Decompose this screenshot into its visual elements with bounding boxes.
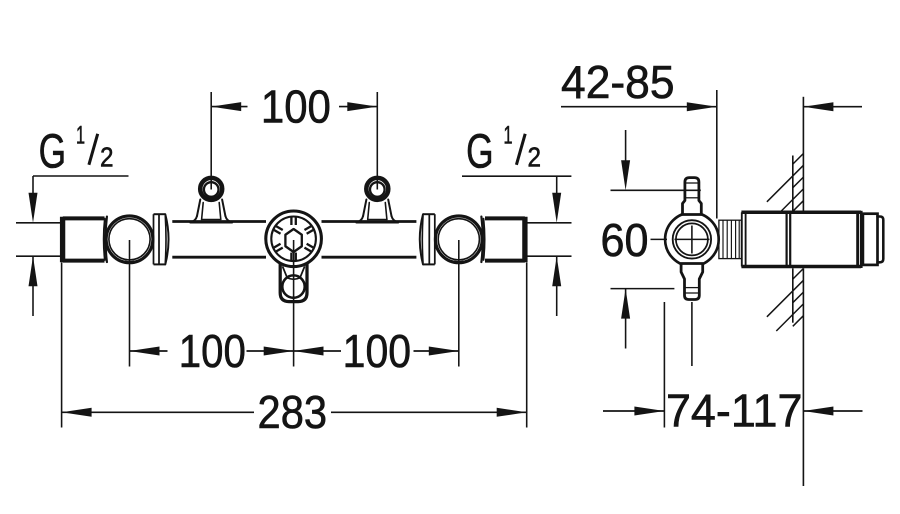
cross body outer <box>665 213 719 267</box>
label G 1/2 left <box>39 122 114 179</box>
dim G 1/2 right arrows <box>462 176 572 316</box>
dim 42-85 <box>561 56 862 219</box>
svg-text:2: 2 <box>100 141 114 172</box>
cross body rings <box>651 220 712 258</box>
svg-text:100: 100 <box>261 80 331 132</box>
svg-text:100: 100 <box>179 325 246 377</box>
dim 100 100 bottom row <box>130 240 459 377</box>
mounting lug right <box>357 178 399 223</box>
mounting lug left <box>190 178 232 223</box>
housing end caps <box>863 214 883 265</box>
valve bottom tab <box>280 264 307 302</box>
svg-text:100: 100 <box>343 325 412 377</box>
dim 74-117 <box>603 302 863 437</box>
dim 283 <box>62 263 527 438</box>
label G 1/2 right <box>466 122 541 179</box>
svg-text:74-117: 74-117 <box>666 385 803 437</box>
dim G 1/2 left arrows <box>16 176 129 316</box>
flush housing body <box>741 211 861 268</box>
dim 60 <box>601 130 701 349</box>
bottom spigot <box>681 264 703 300</box>
left union socket <box>104 214 169 264</box>
main tube middle sections <box>172 222 416 258</box>
threaded collar <box>719 220 742 258</box>
svg-text:60: 60 <box>601 214 649 266</box>
tube left end section <box>63 217 105 263</box>
svg-text:G: G <box>466 125 494 178</box>
dim 100 top <box>211 80 377 189</box>
wall section with hatching <box>767 97 804 486</box>
svg-text:2: 2 <box>528 141 542 172</box>
tube right end section <box>485 217 525 263</box>
top spigot <box>683 178 702 215</box>
svg-text:G: G <box>39 125 67 178</box>
svg-text:42-85: 42-85 <box>561 56 675 108</box>
valve body front (cartridge) <box>266 211 322 267</box>
svg-text:283: 283 <box>258 386 328 438</box>
right union socket <box>420 214 485 264</box>
svg-text:1: 1 <box>504 122 513 150</box>
svg-text:1: 1 <box>76 122 85 150</box>
